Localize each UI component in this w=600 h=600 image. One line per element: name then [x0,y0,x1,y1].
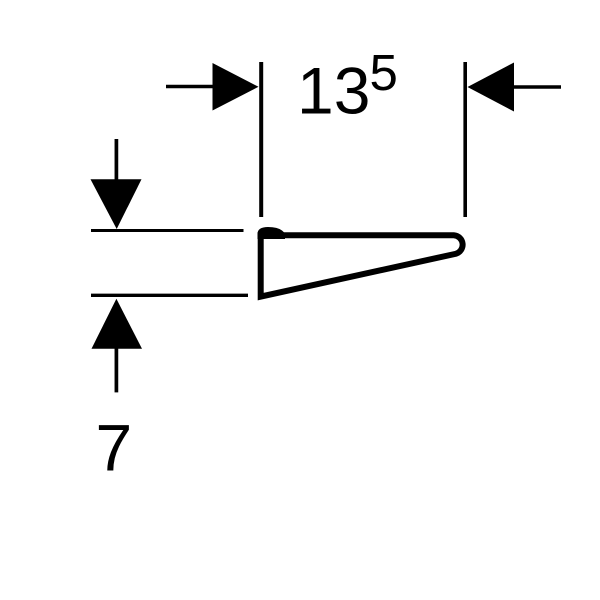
height dimension upper line [91,229,244,232]
svg-text:7: 7 [96,411,133,485]
width dimension label 13 [297,54,370,128]
height dimension label 7 [96,411,133,485]
extension line right of width dimension [463,62,467,217]
height dimension up arrow [92,299,143,393]
profile outline (seal cross-section) [261,235,463,296]
svg-text:13: 13 [297,54,370,128]
extension line left of width dimension [259,62,263,217]
svg-text:5: 5 [370,44,398,101]
profile top-left bead bump [258,227,286,239]
width dimension label superscript 5 [370,44,398,101]
height dimension down arrow [91,139,142,229]
height dimension lower line [91,294,248,297]
width dimension right arrow [468,63,562,112]
width dimension left arrow [166,63,259,111]
